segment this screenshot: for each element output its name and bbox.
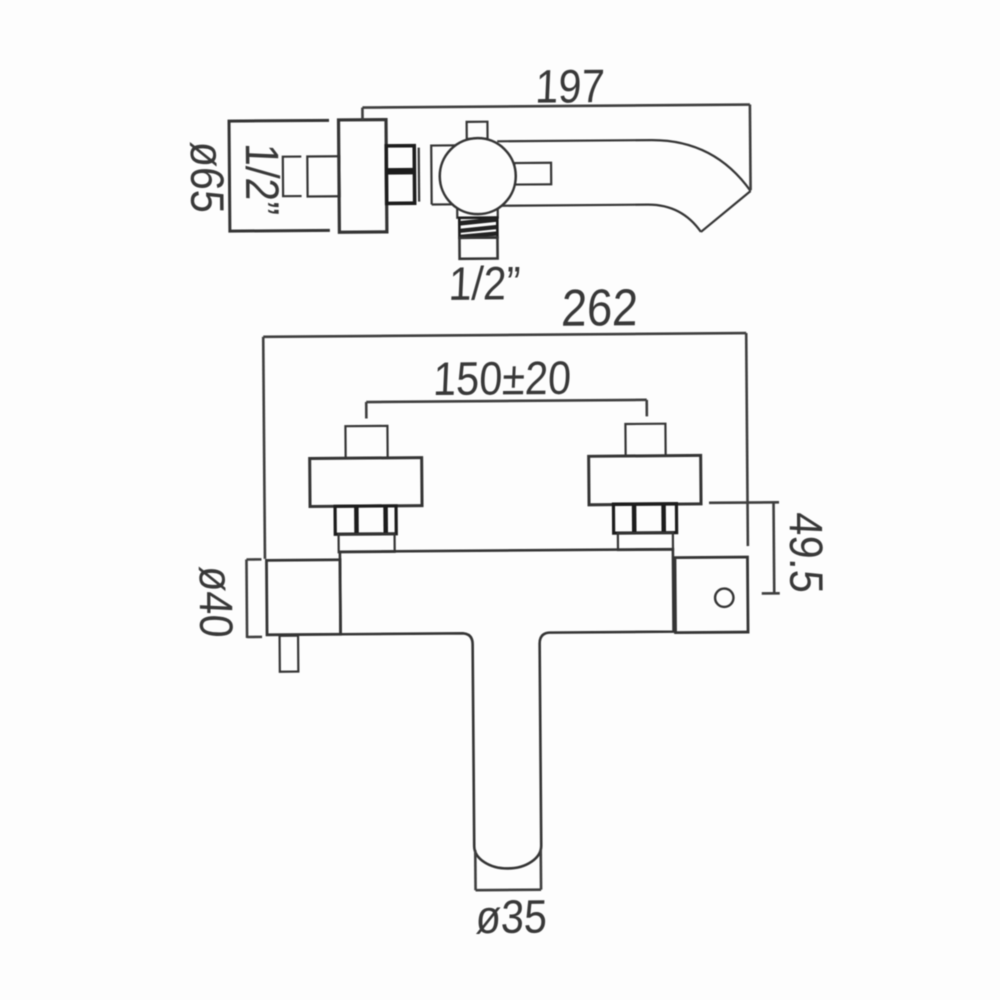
pipe stub bracket [283, 157, 302, 197]
svg-text:150±20: 150±20 [432, 352, 572, 405]
body bar with integral down spout tube [340, 549, 675, 870]
svg-text:ø65: ø65 [180, 141, 233, 215]
dimension 150±20 [366, 400, 647, 419]
pipe rectangle [307, 156, 339, 196]
right end cap [675, 557, 748, 633]
left tab below cap [280, 636, 299, 672]
right wall plate (front) [589, 455, 701, 504]
svg-text:ø35: ø35 [475, 891, 549, 944]
dimension 49.5 [709, 502, 780, 594]
outlet collar under circle [457, 209, 498, 218]
valve body left edge [431, 145, 457, 204]
threaded nut (side view) [386, 146, 414, 204]
nut middle band [386, 168, 414, 175]
left end cap [266, 560, 340, 635]
thermostat knob circle [439, 138, 516, 215]
svg-text:1/2”: 1/2” [235, 142, 288, 216]
top stem [467, 122, 488, 139]
wall plate rectangle (open right side) [229, 120, 330, 231]
right stem [514, 163, 551, 185]
svg-text:262: 262 [560, 280, 639, 338]
spout top edge and curve [497, 139, 750, 193]
svg-text:49.5: 49.5 [779, 511, 832, 594]
left nut neck [339, 534, 395, 552]
left wall plate (front) [310, 458, 422, 507]
outlet threaded block with hatching [459, 218, 497, 238]
escutcheon rectangle [339, 120, 387, 233]
right hex nut [613, 504, 676, 533]
collar line [418, 148, 421, 202]
right cap screw circle [715, 588, 734, 607]
svg-text:ø40: ø40 [189, 565, 242, 639]
dimension 262 [263, 333, 748, 559]
dimension 197 line [362, 105, 750, 194]
dimension ø35 [475, 850, 541, 891]
outlet lower block [459, 238, 497, 259]
spout end face [701, 191, 751, 232]
right inlet small square [625, 424, 665, 456]
spout bottom edge and curve [501, 204, 701, 233]
left hex nut [335, 506, 396, 534]
valve body bottom edge (left of outlet) [432, 203, 457, 205]
right nut neck [618, 533, 673, 550]
svg-text:197: 197 [534, 61, 605, 114]
svg-text:1/2”: 1/2” [448, 258, 522, 311]
left inlet small square [345, 426, 387, 458]
dimension ø40 bracket [246, 559, 262, 638]
